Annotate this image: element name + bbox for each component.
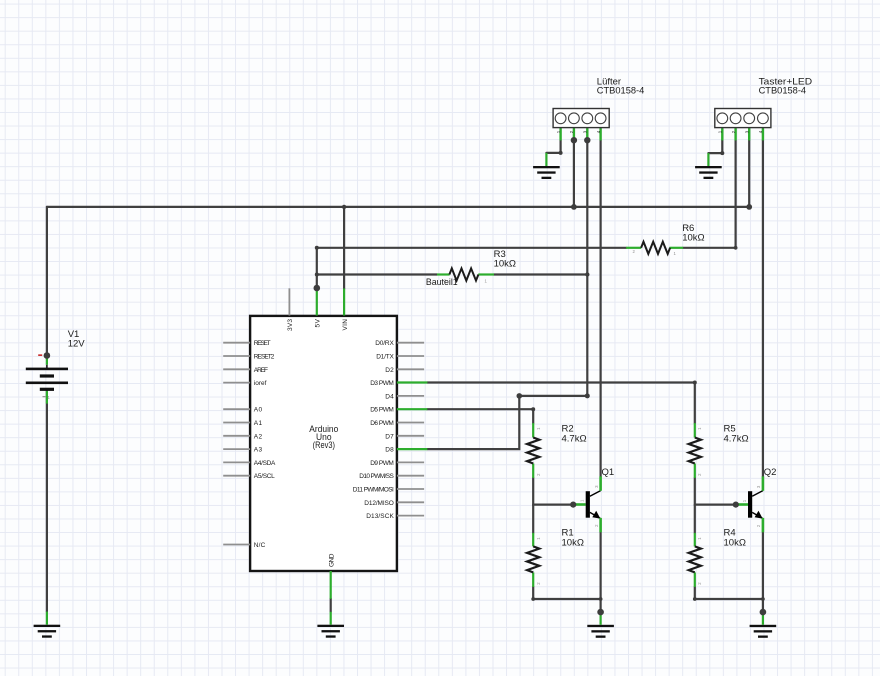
- wire R2 bottom to Q1 base node: [533, 478, 573, 505]
- svg-text:A3: A3: [254, 447, 263, 454]
- node Luefter pin1 ground corner: [559, 151, 563, 155]
- wire Taster pin3 to +12V rail: [748, 140, 750, 207]
- svg-text:AREF: AREF: [254, 367, 268, 374]
- svg-text:10kΩ: 10kΩ: [494, 259, 516, 270]
- svg-text:A1: A1: [254, 420, 263, 427]
- node pin3 jog corner: [585, 393, 590, 398]
- node battery plus junction: [44, 352, 51, 359]
- wire R5 bottom to Q2 base node: [695, 478, 736, 505]
- svg-text:RESET2: RESET2: [254, 354, 275, 361]
- svg-text:D8: D8: [385, 447, 394, 454]
- node D3 corner: [693, 381, 697, 385]
- node R3 tee at pin3 drop: [585, 272, 589, 276]
- svg-text:ioref: ioref: [254, 380, 267, 387]
- node Taster pin3 corner on +12V rail: [746, 204, 752, 210]
- svg-text:D3 PWM: D3 PWM: [370, 380, 394, 387]
- wire Q1 emitter down to ground: [599, 532, 601, 612]
- svg-text:Q2: Q2: [764, 467, 777, 478]
- svg-text:5V: 5V: [315, 318, 322, 327]
- wire Luefter pin1 to ground: [546, 140, 560, 153]
- wire Luefter pin4 to Q1 collector: [599, 140, 601, 476]
- wire D5 to R2 top: [427, 409, 533, 423]
- svg-text:D13/SCK: D13/SCK: [366, 513, 394, 520]
- transistor Q2 NPN: [738, 467, 776, 533]
- svg-text:A2: A2: [254, 433, 263, 440]
- Arduino top pin labels 3V3 5V VIN (rotated): [287, 318, 349, 567]
- node Q2 emitter rail tee: [761, 597, 765, 601]
- node 5V corner top: [315, 246, 319, 250]
- connector J2 Taster+LED CTB0158-4: [715, 76, 812, 140]
- svg-text:A0: A0: [254, 407, 263, 414]
- wire D3 to R5 top: [427, 383, 695, 424]
- svg-text:A4/SDA: A4/SDA: [254, 460, 276, 467]
- connector J1 Luefter CTB0158-4: [553, 76, 644, 140]
- svg-text:D0/RX: D0/RX: [375, 340, 394, 347]
- svg-text:Bauteil1: Bauteil1: [426, 277, 458, 288]
- svg-text:D12/MISO: D12/MISO: [364, 500, 394, 507]
- svg-text:D10 PWM/SS: D10 PWM/SS: [359, 473, 394, 480]
- node Luefter pin3 wire end: [584, 137, 590, 143]
- wire VIN drop from +12V rail: [343, 207, 345, 289]
- node Taster pin1 ground corner: [720, 151, 724, 155]
- ground (Luefter): [533, 166, 560, 179]
- node Q1 base junction: [570, 502, 576, 508]
- transistor Q1 NPN: [576, 467, 615, 533]
- wire R4 top from base node: [694, 505, 696, 533]
- wire R6 right to Taster pin2: [683, 140, 736, 248]
- wire Luefter pin2 to +12V rail: [573, 140, 575, 207]
- node Q2 base junction: [733, 502, 739, 508]
- Arduino left pin stubs: [223, 343, 250, 545]
- wire R4 bottom rail Q2: [695, 587, 763, 599]
- resistor R5 4.7k (vertical): [689, 423, 749, 478]
- node 5V junction: [314, 285, 321, 292]
- wire Q2 emitter down to ground: [762, 532, 764, 612]
- ground (battery): [34, 625, 61, 638]
- svg-text:GND: GND: [329, 553, 336, 567]
- battery minus tiny mark: [43, 396, 46, 397]
- wire battery minus to ground: [46, 391, 48, 612]
- wire +12V horizontal rail: [47, 206, 749, 208]
- node R3 tee at 5V riser: [315, 273, 319, 277]
- svg-text:D1/TX: D1/TX: [376, 354, 394, 361]
- node VIN tee on +12V rail: [342, 205, 346, 209]
- ground (Arduino GND): [317, 625, 344, 638]
- op-amp/mcu U1 Arduino Uno (Rev3) body: [250, 316, 397, 571]
- node D5 corner: [531, 407, 535, 411]
- svg-text:N/C: N/C: [254, 542, 266, 549]
- node D8 jog corner: [517, 393, 523, 399]
- svg-text:CTB0158-4: CTB0158-4: [759, 86, 807, 97]
- ground (Q2 emitter rail): [750, 625, 777, 638]
- battery plus tiny red mark: [38, 354, 42, 356]
- svg-text:10kΩ: 10kΩ: [682, 232, 704, 243]
- node R1 rail corner: [531, 597, 535, 601]
- node Luefter pin2 wire end: [571, 137, 577, 143]
- svg-text:3V3: 3V3: [287, 319, 294, 331]
- wire R3 right to Luefter pin3 vertical: [494, 273, 588, 275]
- Arduino right pin stubs: [397, 343, 424, 516]
- wire 5V node to R3 left: [317, 273, 437, 275]
- svg-text:D5 PWM: D5 PWM: [370, 407, 394, 414]
- wire pin3 jog to D8: [427, 396, 587, 449]
- node Luefter pin2 tee on +12V rail: [571, 204, 577, 210]
- wire Taster pin1 to ground: [708, 140, 722, 153]
- wire Luefter pin3 down: [586, 140, 588, 396]
- resistor R4 10k (vertical): [689, 528, 746, 587]
- node R4 rail corner: [693, 597, 697, 601]
- Arduino right pin labels: [353, 340, 395, 520]
- resistor R1 10k (vertical): [527, 528, 584, 587]
- svg-text:D7: D7: [385, 433, 394, 440]
- svg-text:RESET: RESET: [254, 340, 271, 347]
- svg-text:12V: 12V: [68, 338, 86, 349]
- ground (Taster+LED): [695, 166, 722, 179]
- Arduino top pin stub 3V3 (n/c): [288, 288, 290, 315]
- wire 5V node to R6 left: [317, 247, 626, 249]
- svg-text:A5/SCL: A5/SCL: [254, 473, 275, 480]
- node Q2 ground junction: [760, 609, 767, 616]
- svg-text:10kΩ: 10kΩ: [562, 537, 584, 548]
- svg-text:10kΩ: 10kΩ: [724, 537, 746, 548]
- Arduino left pin labels: [254, 340, 276, 549]
- wire R1 bottom rail Q1: [533, 587, 600, 599]
- svg-text:D2: D2: [385, 367, 394, 374]
- node Q1 ground junction: [597, 609, 604, 616]
- svg-text:CTB0158-4: CTB0158-4: [597, 86, 645, 97]
- resistor R2 4.7k (vertical): [527, 423, 586, 478]
- svg-text:4.7kΩ: 4.7kΩ: [724, 433, 749, 444]
- node Q1 emitter rail tee: [599, 597, 603, 601]
- node R6 to Taster pin2 corner: [734, 246, 738, 250]
- svg-text:D9 PWM: D9 PWM: [370, 460, 394, 467]
- wire 5V riser: [316, 248, 318, 288]
- svg-text:D11 PWM/MOSI: D11 PWM/MOSI: [353, 487, 394, 494]
- svg-text:4.7kΩ: 4.7kΩ: [562, 433, 587, 444]
- wire Arduino GND segment: [330, 599, 332, 612]
- svg-text:D4: D4: [385, 393, 394, 400]
- wire Taster pin4 to Q2 collector: [762, 140, 764, 476]
- svg-text:VIN: VIN: [342, 319, 349, 331]
- resistor R3 10k (horizontal): [437, 249, 516, 283]
- wire R1 top from base node: [532, 505, 534, 533]
- battery V1 12V: [26, 329, 85, 404]
- svg-text:Q1: Q1: [602, 467, 615, 478]
- svg-text:(Rev3): (Rev3): [313, 440, 335, 450]
- svg-text:D6 PWM: D6 PWM: [370, 420, 394, 427]
- ground (Q1 emitter rail): [587, 625, 614, 638]
- wire battery V1 plus to +12V rail: [46, 207, 48, 356]
- Arduino pin leads green (5V VIN GND D3 D5 D8): [317, 289, 428, 599]
- resistor R6 10k (horizontal): [626, 223, 705, 256]
